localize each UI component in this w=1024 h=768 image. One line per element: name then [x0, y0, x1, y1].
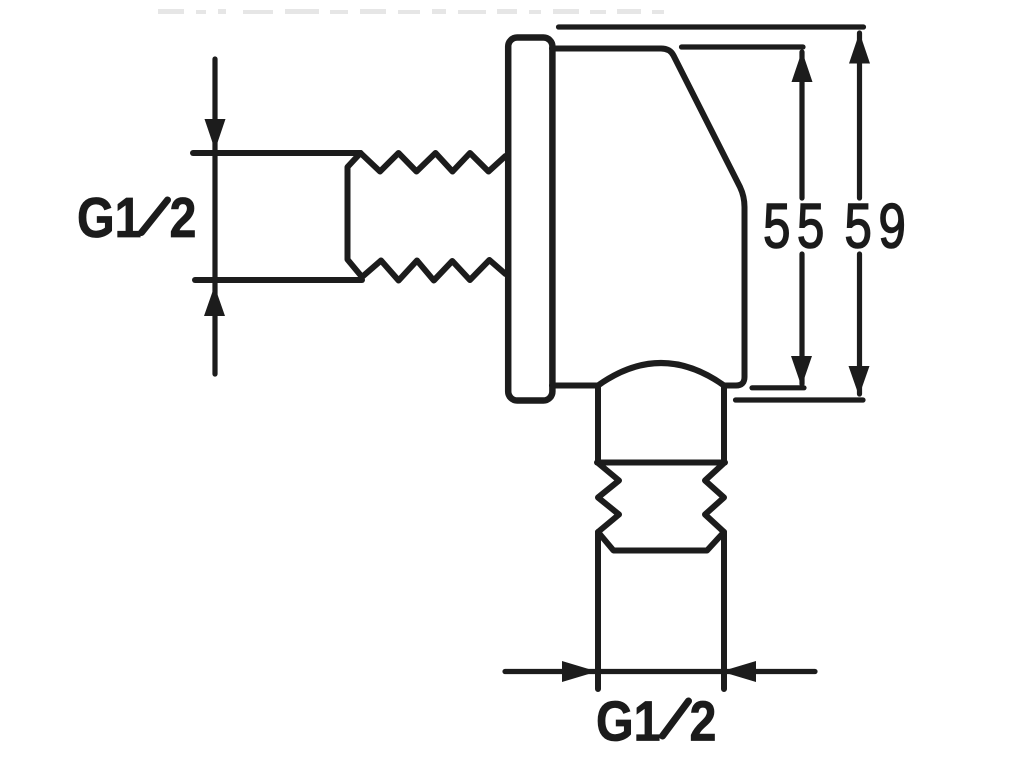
svg-text:2: 2: [170, 186, 197, 250]
svg-text:55: 55: [763, 190, 831, 260]
svg-text:2: 2: [690, 690, 717, 754]
svg-text:G1: G1: [596, 690, 661, 754]
svg-text:G1: G1: [77, 186, 142, 250]
svg-text:59: 59: [845, 190, 913, 260]
